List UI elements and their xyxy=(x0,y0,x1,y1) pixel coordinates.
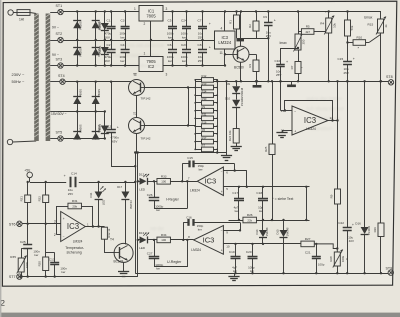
label I-Regler xyxy=(166,197,180,201)
capacitor C23 xyxy=(181,40,191,66)
wire C9 column down xyxy=(268,38,270,81)
resistor R21 xyxy=(20,182,31,224)
wire pin10 wire xyxy=(223,243,301,245)
label R12 xyxy=(202,74,207,78)
svg-text:D12: D12 xyxy=(139,173,145,177)
node j 347.5,42.5 xyxy=(346,41,348,43)
node j 272,81.3 xyxy=(271,80,273,82)
label Imax xyxy=(280,41,287,45)
svg-text:ker: ker xyxy=(199,168,203,172)
svg-text:C21: C21 xyxy=(305,250,311,254)
node jl R6 xyxy=(194,133,196,135)
resistor R34 100 xyxy=(157,233,171,243)
svg-text:+: + xyxy=(117,126,119,130)
node j 280.5,81.3 xyxy=(279,80,281,82)
svg-text:R1: R1 xyxy=(228,20,232,24)
node j 337.3,248.5 xyxy=(336,247,338,249)
svg-text:C19: C19 xyxy=(229,250,235,254)
svg-text:R10: R10 xyxy=(356,36,362,40)
C27 return wire xyxy=(154,240,188,267)
wire U feedback left xyxy=(183,222,185,240)
wire I feedback left xyxy=(182,164,184,181)
capacitor C13 100n xyxy=(49,253,67,277)
wire pin6 drop xyxy=(246,171,248,187)
resistor R2 xyxy=(248,12,259,39)
node j 268.3,11.5 xyxy=(267,10,269,12)
svg-text:ST7: ST7 xyxy=(9,275,16,279)
node jl R7 xyxy=(194,149,196,151)
terminal ST6 xyxy=(9,221,22,226)
label siehe Text xyxy=(272,197,293,201)
node j 95.7,40 xyxy=(95,39,97,41)
svg-text:−: − xyxy=(221,228,223,232)
capacitor C1 470u xyxy=(103,12,115,41)
terminal ST3 xyxy=(56,58,64,68)
wire vert x306 xyxy=(306,187,308,220)
resistor R12 xyxy=(195,78,217,83)
svg-text:R22: R22 xyxy=(38,196,42,202)
svg-text:T4: T4 xyxy=(110,237,114,241)
svg-text:R9: R9 xyxy=(329,194,333,198)
label Temperatur xyxy=(65,246,85,250)
svg-text:1N4001: 1N4001 xyxy=(98,21,102,31)
svg-text:C16: C16 xyxy=(186,215,192,219)
svg-text:R31: R31 xyxy=(72,199,78,203)
svg-text:1N4148: 1N4148 xyxy=(286,227,289,236)
svg-text:R33: R33 xyxy=(161,174,167,178)
wire rail +top xyxy=(63,11,381,13)
wire bus to D12 xyxy=(138,181,140,183)
diode P600S col77.2 row1 xyxy=(73,21,83,30)
svg-text:werden kann aber auch: werden kann aber auch xyxy=(112,63,160,68)
wire mid tap wire xyxy=(58,111,105,113)
svg-text:D13: D13 xyxy=(139,231,145,235)
svg-text:+: + xyxy=(221,190,223,194)
node jr 172.5,40 xyxy=(171,39,173,41)
capacitor C20 100p xyxy=(246,244,258,273)
wire ST5 wire xyxy=(63,138,105,140)
wire U feedback drop xyxy=(240,222,242,230)
svg-text:−: − xyxy=(63,235,65,239)
capacitor C8 xyxy=(198,40,211,66)
wire column P600S extra xyxy=(104,112,106,139)
svg-text:25V: 25V xyxy=(276,73,281,77)
wire pin6 wire xyxy=(223,170,246,172)
resistor R7 xyxy=(195,147,217,152)
svg-text:ST2: ST2 xyxy=(56,32,63,36)
ground marker x291 xyxy=(287,81,296,87)
label R6 xyxy=(202,128,206,132)
svg-text:15V/30V ~: 15V/30V ~ xyxy=(51,112,67,116)
node j 188,87.5 xyxy=(187,86,189,88)
node jr R9 xyxy=(216,110,218,112)
node j 77.2,11.5 xyxy=(76,10,78,12)
ground pin12 xyxy=(276,130,287,138)
node j 77.2,65.5 xyxy=(76,64,78,66)
svg-text:C23: C23 xyxy=(181,43,187,47)
node j 137.8,239.9 xyxy=(137,239,139,241)
svg-text:ST9: ST9 xyxy=(386,266,393,270)
svg-text:3: 3 xyxy=(54,220,56,224)
capacitor C16 150p xyxy=(183,215,240,231)
LED D13 xyxy=(139,231,149,250)
svg-text:4k7: 4k7 xyxy=(305,30,310,34)
wire T1 base wire xyxy=(225,54,233,56)
node j 135.2,182 xyxy=(134,181,136,183)
label star R10 xyxy=(358,46,360,51)
capacitor C10 xyxy=(275,48,289,81)
terminal ST9 xyxy=(386,266,394,275)
diode D16 1N4002 xyxy=(355,81,371,273)
capacitor C21 100p xyxy=(305,244,325,273)
terminal ST4 xyxy=(58,74,65,84)
node j 364.6,81.3 xyxy=(363,80,365,82)
ground ladder xyxy=(221,153,232,161)
svg-text:R13: R13 xyxy=(202,82,207,86)
wire T2-T3 emitter xyxy=(136,96,138,118)
svg-text:22k: 22k xyxy=(247,218,252,222)
svg-text:R17: R17 xyxy=(202,136,207,140)
svg-text:C10: C10 xyxy=(275,59,281,63)
wire rectifier column x77.2 lower xyxy=(77,82,79,139)
resistor R20 xyxy=(38,257,49,277)
label 15V/30V xyxy=(51,112,67,116)
svg-text:mit der: mit der xyxy=(150,226,165,231)
wire T2 base wire xyxy=(145,87,196,89)
wire D11 top lead xyxy=(98,182,100,192)
resistor R13 xyxy=(195,85,217,90)
op-amp IC3 I-Regler xyxy=(188,167,228,196)
capacitor C5 xyxy=(167,12,177,41)
node jr R31 xyxy=(216,117,218,119)
resistor R10 xyxy=(348,36,370,46)
svg-text:ker: ker xyxy=(121,35,125,39)
svg-text:IC3: IC3 xyxy=(67,222,79,231)
node j 306.3,220 xyxy=(305,219,307,221)
svg-text:−: − xyxy=(294,110,296,114)
svg-text:C6: C6 xyxy=(168,43,172,47)
terminal ST1 xyxy=(56,4,64,15)
svg-text:1N4002: 1N4002 xyxy=(367,225,371,235)
wire col x236 top xyxy=(236,81,238,86)
node jl 77.2,111.5 xyxy=(76,110,78,112)
regulator IC2 7905 xyxy=(134,52,168,77)
svg-text:LED: LED xyxy=(101,200,105,205)
svg-text:theoretisch: theoretisch xyxy=(310,126,333,131)
svg-text:Umax: Umax xyxy=(364,15,373,19)
svg-text:250: 250 xyxy=(302,39,306,44)
node j 104.8,65.5 xyxy=(104,64,106,66)
node j 283.5,273.2 xyxy=(282,272,284,274)
svg-text:16V: 16V xyxy=(105,35,110,39)
diode P600S col95.7 row1 xyxy=(92,21,102,30)
node j 268.3,81.3 xyxy=(267,80,269,82)
resistor R7 xyxy=(290,62,305,74)
resistor R32 1k xyxy=(101,227,110,240)
node j 217.2,152.5 xyxy=(216,151,218,153)
diode P600S col77.2 row2 xyxy=(73,48,83,57)
svg-text:IC3: IC3 xyxy=(204,177,216,186)
capacitor C3 100n xyxy=(120,12,130,41)
node jl R31 xyxy=(194,117,196,119)
diode P600S low col77.2 row2 xyxy=(73,124,83,139)
node j 239,220 xyxy=(238,219,240,221)
svg-text:ST5: ST5 xyxy=(56,131,63,135)
rail end marker xyxy=(237,39,245,41)
svg-text:R30: R30 xyxy=(202,97,207,101)
svg-text:und in den letzten: und in den letzten xyxy=(306,96,343,101)
node j 337.5,81.3 xyxy=(336,80,338,82)
svg-text:3: 3 xyxy=(166,73,168,77)
node j 187.3,181.3 xyxy=(186,180,188,182)
svg-text:C18: C18 xyxy=(256,191,262,195)
node jl 95.7,81.7 xyxy=(95,81,97,83)
svg-text:+: + xyxy=(294,130,296,134)
wire rail bottom 0V xyxy=(135,273,388,275)
svg-text:R7: R7 xyxy=(202,144,206,148)
node j 182.2,181.3 xyxy=(181,180,183,182)
svg-text:R7: R7 xyxy=(290,65,294,69)
node j 347.5,11.5 xyxy=(346,10,348,12)
LED D11 xyxy=(89,186,106,226)
wire rail ST4 collector xyxy=(65,81,131,83)
wire rail +5V b xyxy=(79,182,135,184)
svg-text:+: + xyxy=(352,223,354,227)
wire D12 to R33 xyxy=(147,181,157,183)
wire R3 top link xyxy=(249,54,256,56)
svg-text:P600S: P600S xyxy=(79,21,83,29)
label Umax xyxy=(364,15,373,19)
wire rail emitter out xyxy=(135,152,226,154)
svg-text:56k: 56k xyxy=(350,25,354,30)
svg-text:C7: C7 xyxy=(198,19,202,23)
node j 347.5,81.3 xyxy=(346,80,348,82)
svg-text:ST6: ST6 xyxy=(9,222,16,226)
resistor R17 xyxy=(195,139,217,144)
wire mains N to primary xyxy=(13,141,37,142)
resistor R30 xyxy=(195,101,217,106)
svg-text:100k: 100k xyxy=(341,255,345,262)
node jr R6 xyxy=(216,133,218,135)
svg-text:R31: R31 xyxy=(202,113,207,117)
wire rail neg b xyxy=(163,65,226,67)
node j 252.5,273.2 xyxy=(251,272,253,274)
svg-text:T2: T2 xyxy=(133,73,137,77)
svg-text:C2: C2 xyxy=(107,43,111,47)
svg-text:25V: 25V xyxy=(266,34,271,38)
node jl R9 xyxy=(194,110,196,112)
svg-text:R34: R34 xyxy=(161,233,167,237)
wire R27 to R28 xyxy=(314,244,337,252)
capacitor C6 xyxy=(167,40,177,66)
svg-text:1N4148/1N4148: 1N4148/1N4148 xyxy=(241,87,244,106)
node j 272,220 xyxy=(271,219,273,221)
resistor R16 xyxy=(195,124,217,129)
label R9 xyxy=(202,105,206,109)
node j 95.7,11.5 xyxy=(95,10,97,12)
capacitor C26 1000p xyxy=(147,181,164,212)
capacitor C15a xyxy=(338,43,355,82)
svg-text:ST8: ST8 xyxy=(386,75,393,79)
node j 27.7,182 xyxy=(27,181,29,183)
svg-text:sicherung: sicherung xyxy=(67,251,82,255)
node j 337.5,120.5 xyxy=(336,119,338,121)
svg-text:3: 3 xyxy=(166,7,168,11)
svg-text:D15: D15 xyxy=(275,229,279,234)
wire T4 emitter xyxy=(123,262,125,269)
svg-text:+5V: +5V xyxy=(24,168,31,172)
node jc 111.1,65.5 xyxy=(110,64,112,66)
svg-text:+: + xyxy=(353,57,355,61)
node j 285,110.5 xyxy=(284,109,286,111)
trimmer R35 xyxy=(10,255,29,277)
node jc 125.1,65.5 xyxy=(124,64,126,66)
resistor R31 20k xyxy=(68,199,82,209)
svg-text:R12: R12 xyxy=(202,74,207,78)
svg-text:R3: R3 xyxy=(248,64,252,68)
node jc 125.1,40 xyxy=(124,39,126,41)
wire tap ST1 xyxy=(50,12,58,14)
node jl R13 xyxy=(194,87,196,89)
wire pin9 wire xyxy=(223,230,240,232)
diode D3 1N4001 xyxy=(98,21,109,31)
svg-text:D16: D16 xyxy=(355,222,361,226)
svg-text:10k: 10k xyxy=(332,23,336,28)
svg-text:R6: R6 xyxy=(202,128,206,132)
node j 381,273.2 xyxy=(380,272,382,274)
label R17 xyxy=(202,136,207,140)
wire op14 output xyxy=(328,120,338,122)
node j 328.7,11.5 xyxy=(328,10,330,12)
svg-text:ker: ker xyxy=(168,35,172,39)
resistor R25 xyxy=(264,81,275,220)
left scan edge xyxy=(0,0,1,317)
svg-text:−: − xyxy=(221,170,223,174)
label R14 xyxy=(202,89,207,93)
resistor R9b xyxy=(329,189,340,249)
node j 328.7,81.3 xyxy=(328,80,330,82)
wire T1 emitter xyxy=(240,62,242,81)
node jr 186.5,65.5 xyxy=(185,64,187,66)
wire D13 to R34 xyxy=(147,239,157,241)
node jr 202.5,65.5 xyxy=(201,64,203,66)
svg-text:1N4148: 1N4148 xyxy=(266,227,269,236)
node jr 186.5,40 xyxy=(185,39,187,41)
node j 263,243.9 xyxy=(262,243,264,245)
op-amp IC3 temperature xyxy=(54,212,89,244)
node j 98.6,226.5 xyxy=(97,225,99,227)
node jr R16 xyxy=(216,125,218,127)
resistor R29 xyxy=(373,81,384,273)
wire column 1N4001 xyxy=(104,12,106,66)
svg-text:IC3: IC3 xyxy=(203,235,215,244)
svg-text:100p: 100p xyxy=(318,263,325,267)
svg-text:1: 1 xyxy=(134,7,136,11)
svg-text:16V: 16V xyxy=(105,59,110,63)
node j 234.7,170.6 xyxy=(234,169,236,171)
wire T4 collector xyxy=(125,200,127,244)
svg-text:+: + xyxy=(63,217,65,221)
wire op1 output xyxy=(85,226,104,228)
label R30 xyxy=(202,97,207,101)
wire IC2 pin1 lead xyxy=(150,40,152,57)
svg-text:ST3: ST3 xyxy=(56,58,63,62)
svg-text:+: + xyxy=(274,19,276,23)
svg-text:9V ~: 9V ~ xyxy=(52,25,59,29)
wire ladder right bus xyxy=(217,80,219,153)
node j 187.3,239.9 xyxy=(186,239,188,241)
resistor R31 xyxy=(195,116,217,121)
node j 188,125.5 xyxy=(187,124,189,126)
svg-text:C15: C15 xyxy=(338,57,344,61)
svg-text:ker: ker xyxy=(182,35,186,39)
svg-text:R14: R14 xyxy=(202,89,207,93)
node j 332.5,120.5 xyxy=(331,119,333,121)
capacitor C15 150p xyxy=(182,156,235,172)
svg-text:LM324: LM324 xyxy=(218,40,231,45)
node j 54.7,276.6 xyxy=(54,275,56,277)
wire feedback top xyxy=(285,100,333,102)
terminal ST5 xyxy=(56,131,64,142)
wire link y252 xyxy=(46,252,55,254)
wire pin13 wire xyxy=(281,110,293,112)
svg-text:R4: R4 xyxy=(320,21,324,25)
resistor R27 xyxy=(301,237,314,247)
wire feedback right xyxy=(332,100,334,121)
node j 263,220 xyxy=(262,219,264,221)
svg-text:10: 10 xyxy=(226,244,230,248)
svg-text:der bnt nldt elektronik: der bnt nldt elektronik xyxy=(120,43,165,48)
svg-text:Temperatur-: Temperatur- xyxy=(65,246,85,250)
diode D10 1N4148 xyxy=(225,87,244,128)
svg-text:+: + xyxy=(209,22,211,26)
node j 104.8,11.5 xyxy=(104,10,106,12)
node jc 111.1,11.5 xyxy=(110,10,112,12)
capacitor C17 4p7 xyxy=(232,187,244,220)
node j 154,239.9 xyxy=(153,239,155,241)
label R31 xyxy=(202,113,207,117)
node j 225.5,65.5 xyxy=(224,64,226,66)
diode D4 1N4001 xyxy=(98,45,109,55)
node jl R14 xyxy=(194,94,196,96)
resistor R22 xyxy=(38,182,49,224)
wire R33 to opamp xyxy=(171,181,198,183)
wire bus x226 xyxy=(226,81,228,152)
svg-text:LM324: LM324 xyxy=(73,240,83,244)
node j 137.8,152.5 xyxy=(137,151,139,153)
wire bus x138 xyxy=(137,153,139,277)
node jc 125.1,11.5 xyxy=(124,10,126,12)
svg-text:C8: C8 xyxy=(198,43,202,47)
svg-text:ker: ker xyxy=(168,59,172,63)
wire pin12 wire xyxy=(282,130,292,132)
op-amp supply IC3 LM324 box xyxy=(215,27,236,56)
capacitor C22 10u xyxy=(338,81,354,273)
resistor R3 xyxy=(248,54,259,81)
node j 135.2,152.5 xyxy=(134,151,136,153)
svg-text:ker: ker xyxy=(61,270,65,274)
node j 283.5,220 xyxy=(282,219,284,221)
node j 27.7,223.8 xyxy=(27,223,29,225)
node jr R7 xyxy=(216,149,218,151)
svg-text:20k: 20k xyxy=(72,204,77,208)
svg-text:ker: ker xyxy=(182,59,186,63)
wire T3 emitter down xyxy=(136,134,138,153)
node jr 172.5,65.5 xyxy=(171,64,173,66)
svg-text:1N4001: 1N4001 xyxy=(98,45,102,55)
capacitor C27 1000p xyxy=(147,240,164,271)
node j 298,81.3 xyxy=(297,80,299,82)
